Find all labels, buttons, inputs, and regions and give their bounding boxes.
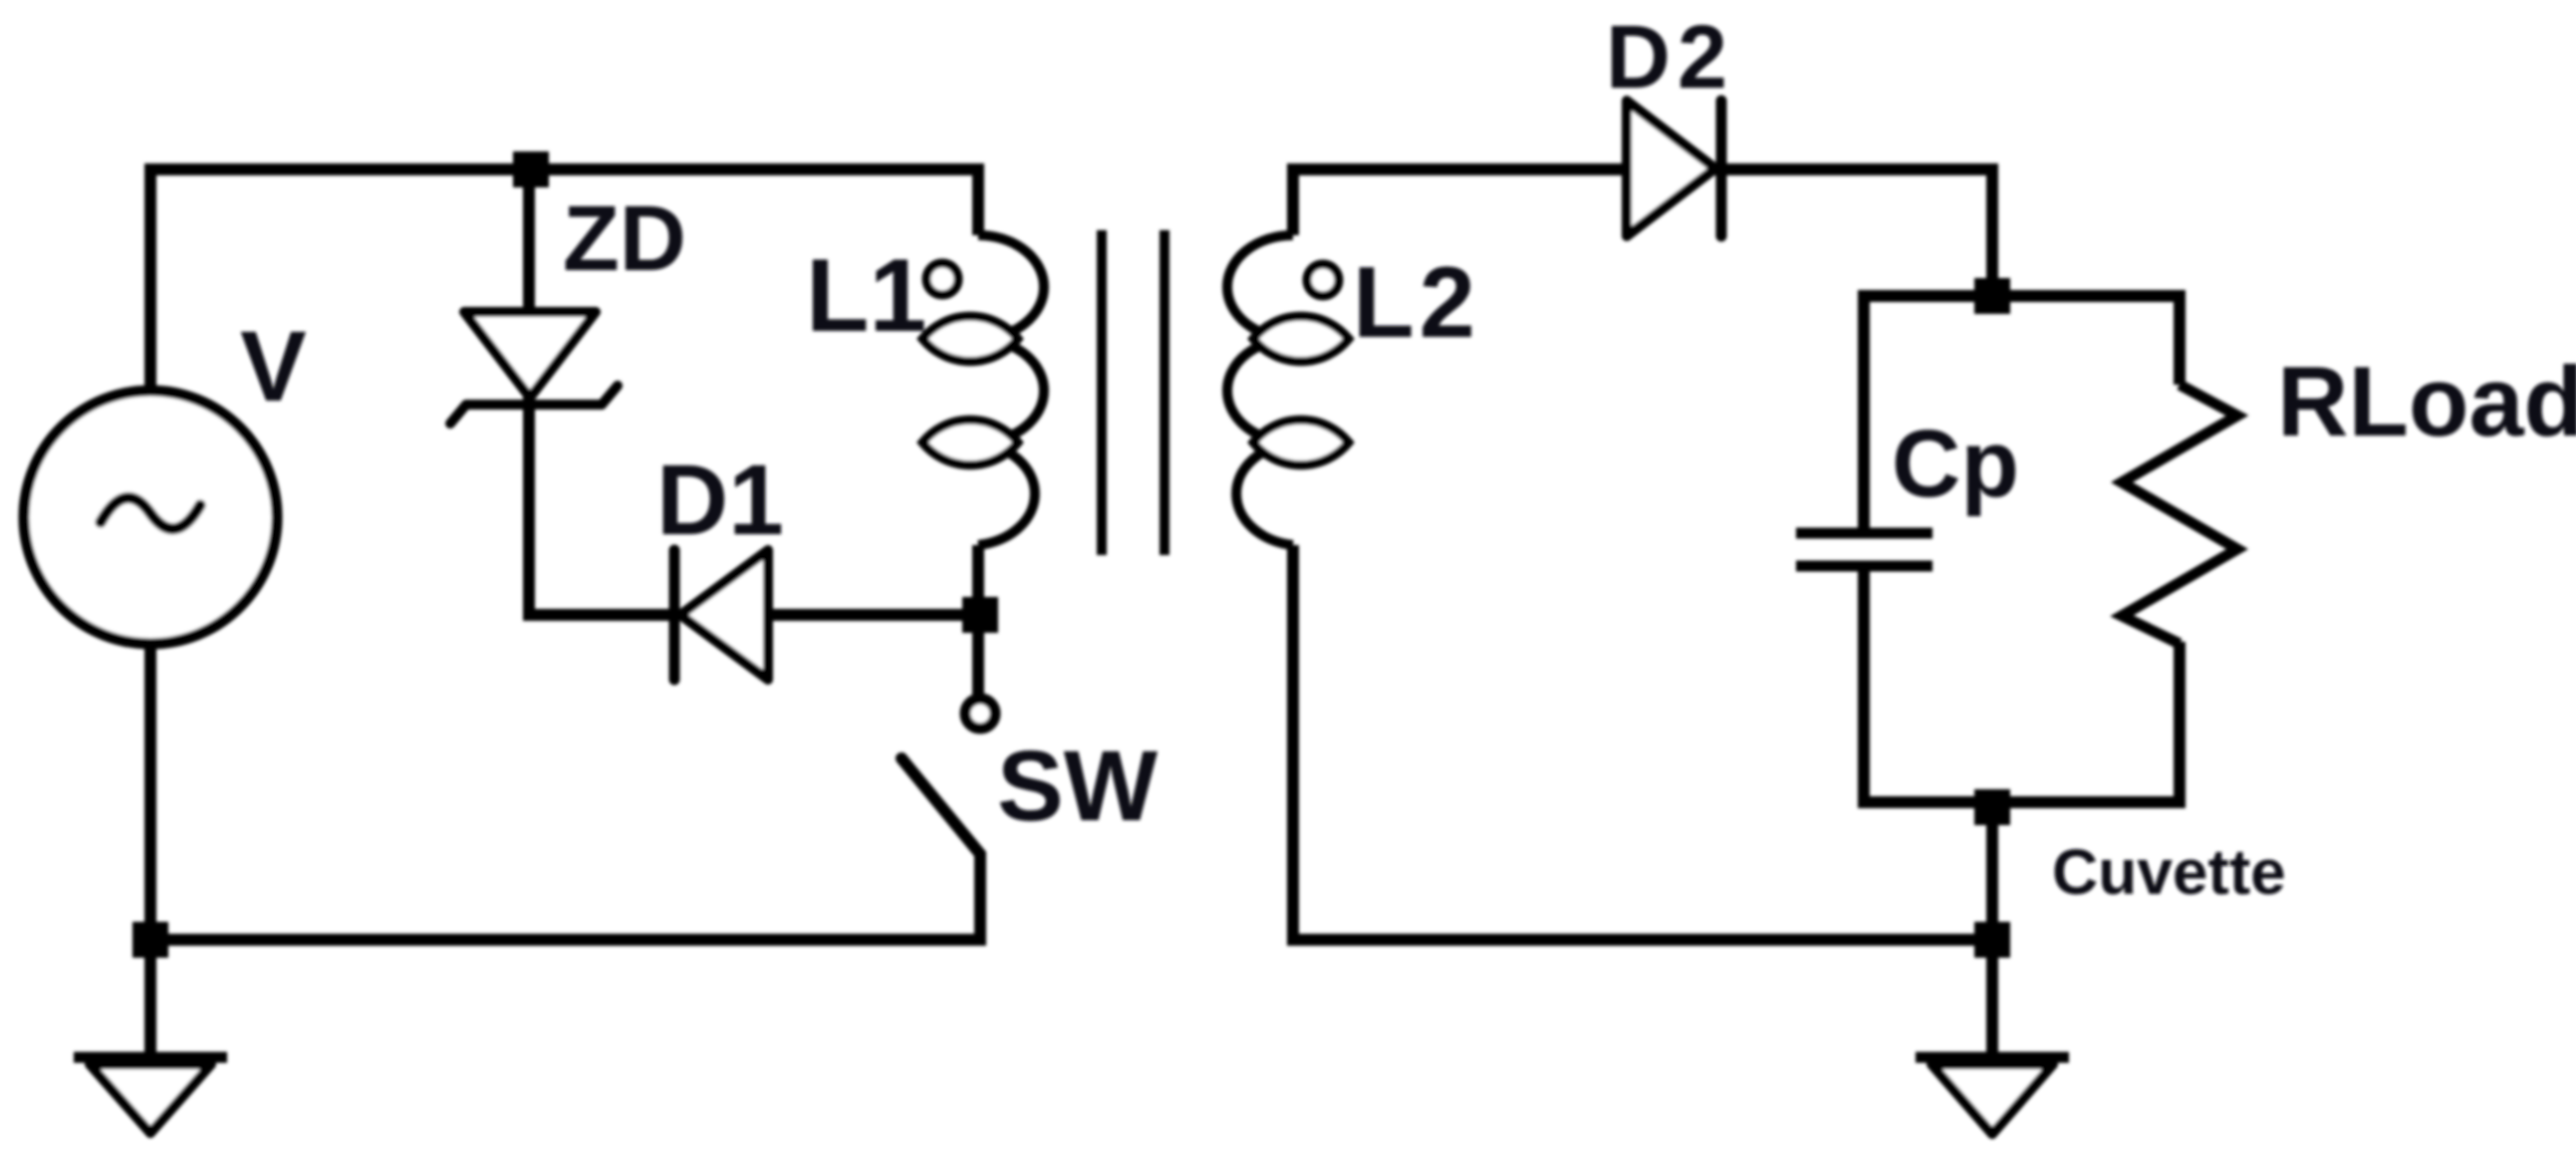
svg-text:ZD: ZD	[563, 186, 686, 290]
junction node secondary top	[1974, 278, 2010, 314]
wire Cp lower and parallel bottom and RLoad lower stub	[1864, 566, 2180, 802]
wire L1 bottom lead to switch terminal	[972, 545, 984, 699]
ground right triangle	[1932, 1064, 2053, 1134]
phase dot L2	[1307, 264, 1339, 296]
svg-text:Cuvette: Cuvette	[2052, 836, 2286, 908]
wire switch blade to bottom rail	[902, 758, 980, 940]
junction node bottom-right	[1974, 922, 2010, 958]
svg-text:D1: D1	[656, 444, 784, 556]
svg-text:RLoad: RLoad	[2277, 346, 2576, 456]
wire left rail and top primary rail and L1 top lead	[150, 169, 978, 1057]
diode D2 triangle	[1627, 101, 1715, 236]
zener diode ZD triangle	[464, 312, 596, 398]
diode D1 triangle	[680, 550, 768, 680]
inductor L1 winding arcs	[978, 235, 1044, 545]
diode D1 cathode bar	[669, 550, 680, 680]
svg-text:D2: D2	[1606, 8, 1734, 108]
resistor RLoad zigzag	[2122, 385, 2237, 644]
phase dot L1	[926, 263, 958, 295]
inductor L2 loop lens upper	[1253, 316, 1349, 362]
svg-text:L2: L2	[1353, 247, 1480, 359]
wire right rail to ground	[1986, 802, 1998, 1057]
zener diode ZD cathode bar with hooks	[450, 386, 618, 424]
inductor L1 loop lens lower	[922, 420, 1018, 465]
transformer core line right	[1159, 230, 1169, 555]
junction node D1-L1-SW	[962, 597, 998, 633]
ground left triangle	[90, 1064, 211, 1133]
capacitor Cp top plate	[1796, 528, 1932, 539]
switch SW terminal circle	[965, 699, 995, 728]
wire ZD branch upper	[523, 169, 535, 314]
voltage source V circle	[24, 391, 277, 644]
inductor L1 loop lens upper	[922, 316, 1018, 362]
svg-text:SW: SW	[997, 730, 1159, 842]
wire L2 bottom lead and bottom secondary rail	[1293, 545, 1992, 940]
ground left bar	[74, 1052, 227, 1063]
inductor L2 loop lens lower	[1253, 420, 1349, 465]
wire Cp upper and parallel top and RLoad upper stub	[1864, 296, 2180, 533]
svg-text:L1: L1	[806, 238, 926, 354]
ground right bar	[1916, 1052, 2069, 1063]
wire bottom primary rail	[150, 934, 986, 946]
junction node top-left	[513, 151, 549, 187]
svg-text:Cp: Cp	[1892, 411, 2019, 517]
wire L2 top lead and top secondary rail and right drop	[1293, 169, 1992, 296]
junction node parallel bottom	[1974, 789, 2010, 825]
wire D1 cathode side horizontal	[675, 609, 980, 621]
capacitor Cp bottom plate	[1796, 561, 1932, 572]
junction node bottom-left	[132, 922, 168, 958]
transformer core line left	[1097, 230, 1107, 555]
svg-text:V: V	[240, 311, 307, 423]
diode D2 cathode bar	[1716, 101, 1727, 236]
wire ZD branch lower to D1	[529, 396, 674, 615]
voltage source V sine symbol	[101, 497, 200, 528]
inductor L2 winding arcs	[1227, 235, 1293, 545]
